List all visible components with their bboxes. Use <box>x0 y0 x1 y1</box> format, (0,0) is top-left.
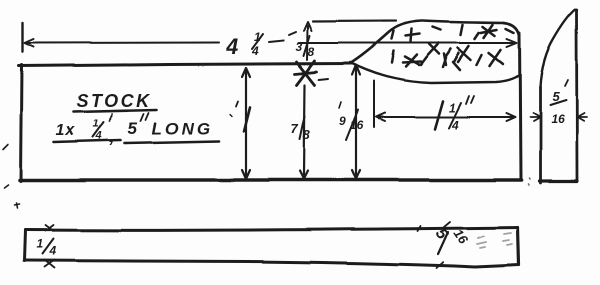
dimension 9/16 (grind line to bottom) <box>352 65 360 179</box>
svg-text:8: 8 <box>303 127 311 142</box>
fraction bar of 7/8 <box>300 116 305 139</box>
dimension 7/8 (bar top to bottom) <box>300 85 308 179</box>
hatch marks on blade face <box>392 25 514 70</box>
svg-text:LONG: LONG <box>152 119 213 138</box>
svg-text:,: , <box>109 126 115 147</box>
dimension 4 1/4 line <box>23 23 517 52</box>
bottom strip (edge view of stock) outline <box>24 228 519 268</box>
dimension 1 1/4 (blade length) <box>374 81 515 127</box>
strip label 1/4 <box>36 237 56 258</box>
svg-text:4: 4 <box>48 244 56 258</box>
stray pencil marks at left margin <box>3 114 232 208</box>
label 9/16 <box>339 114 364 132</box>
fraction bar of 1 1/4 <box>449 103 461 128</box>
bottom edge of front view <box>20 178 521 182</box>
right edge of front view <box>520 33 521 180</box>
left edge of front view <box>21 65 22 181</box>
inch tick near 9/16 <box>339 102 341 108</box>
inch mark after 1/4 <box>110 114 113 121</box>
faint smudge marks near strip right end <box>477 233 512 248</box>
svg-text:1: 1 <box>36 237 43 251</box>
side view label 5/16 <box>551 89 565 126</box>
fraction bar of 9/16 <box>346 110 358 140</box>
underline of 1x1/4 <box>54 140 121 142</box>
svg-text:1: 1 <box>449 101 456 115</box>
svg-text:8: 8 <box>308 45 315 59</box>
stray dash right of star <box>319 79 328 80</box>
svg-text:1: 1 <box>93 118 99 130</box>
strip label 5/16 <box>432 226 472 248</box>
side view outline <box>539 10 577 183</box>
svg-text:5: 5 <box>128 119 138 138</box>
faint dots between front and side view bottoms <box>528 178 530 185</box>
underline of STOCK <box>74 110 157 112</box>
side view 5/16 dimension arrows <box>530 113 587 121</box>
title text STOCK <box>77 91 152 111</box>
svg-text:7: 7 <box>291 121 299 136</box>
svg-text:4: 4 <box>225 34 238 59</box>
inch mark after 5 <box>141 113 149 121</box>
label 1 inch <box>244 107 250 131</box>
text 5 inch LONG <box>128 119 213 138</box>
svg-text:3: 3 <box>296 40 303 54</box>
fraction bar of 4 1/4 <box>252 34 263 49</box>
svg-text:STOCK: STOCK <box>77 91 152 111</box>
fraction bar of strip 1/4 <box>42 239 53 254</box>
fraction bar of 1/4 <box>93 122 104 137</box>
blade bottom grind curve <box>350 63 518 84</box>
fraction bar of side 5/16 <box>550 100 566 105</box>
svg-text:9: 9 <box>339 114 346 128</box>
inch mark of side 5/16 <box>565 80 568 86</box>
svg-text:16: 16 <box>551 112 565 126</box>
text 1 x 1/4 comma <box>56 118 115 147</box>
blade top plateau edge <box>423 21 504 23</box>
dimension label 4 1/4 <box>225 30 261 59</box>
label 1 1/4 <box>435 101 443 129</box>
label 7/8 <box>291 121 311 142</box>
blade top S-curve <box>350 21 422 64</box>
front view outline: stock bar with flattened blade end <box>19 21 521 181</box>
strip 1/4 thickness dimension arrow marks <box>44 225 54 268</box>
blade rounded top-right corner <box>504 23 520 35</box>
blade-top extension line <box>313 20 396 23</box>
inch marks of 1 1/4 <box>466 96 474 104</box>
top edge of front view <box>19 64 351 67</box>
label 3/8 <box>296 40 315 59</box>
fraction bar of 3/8 <box>304 36 310 56</box>
strip 5/16 thickness dimension ticks <box>418 222 450 268</box>
fraction bar of strip 5/16 <box>438 232 448 254</box>
underline of 5 LONG <box>125 141 219 143</box>
dimension 1 (full height) <box>242 68 250 179</box>
crossed arrowheads star at bar top line <box>295 61 317 85</box>
svg-text:1x: 1x <box>56 122 76 139</box>
dimension 3/8 (blade top to bar top) <box>304 22 312 60</box>
